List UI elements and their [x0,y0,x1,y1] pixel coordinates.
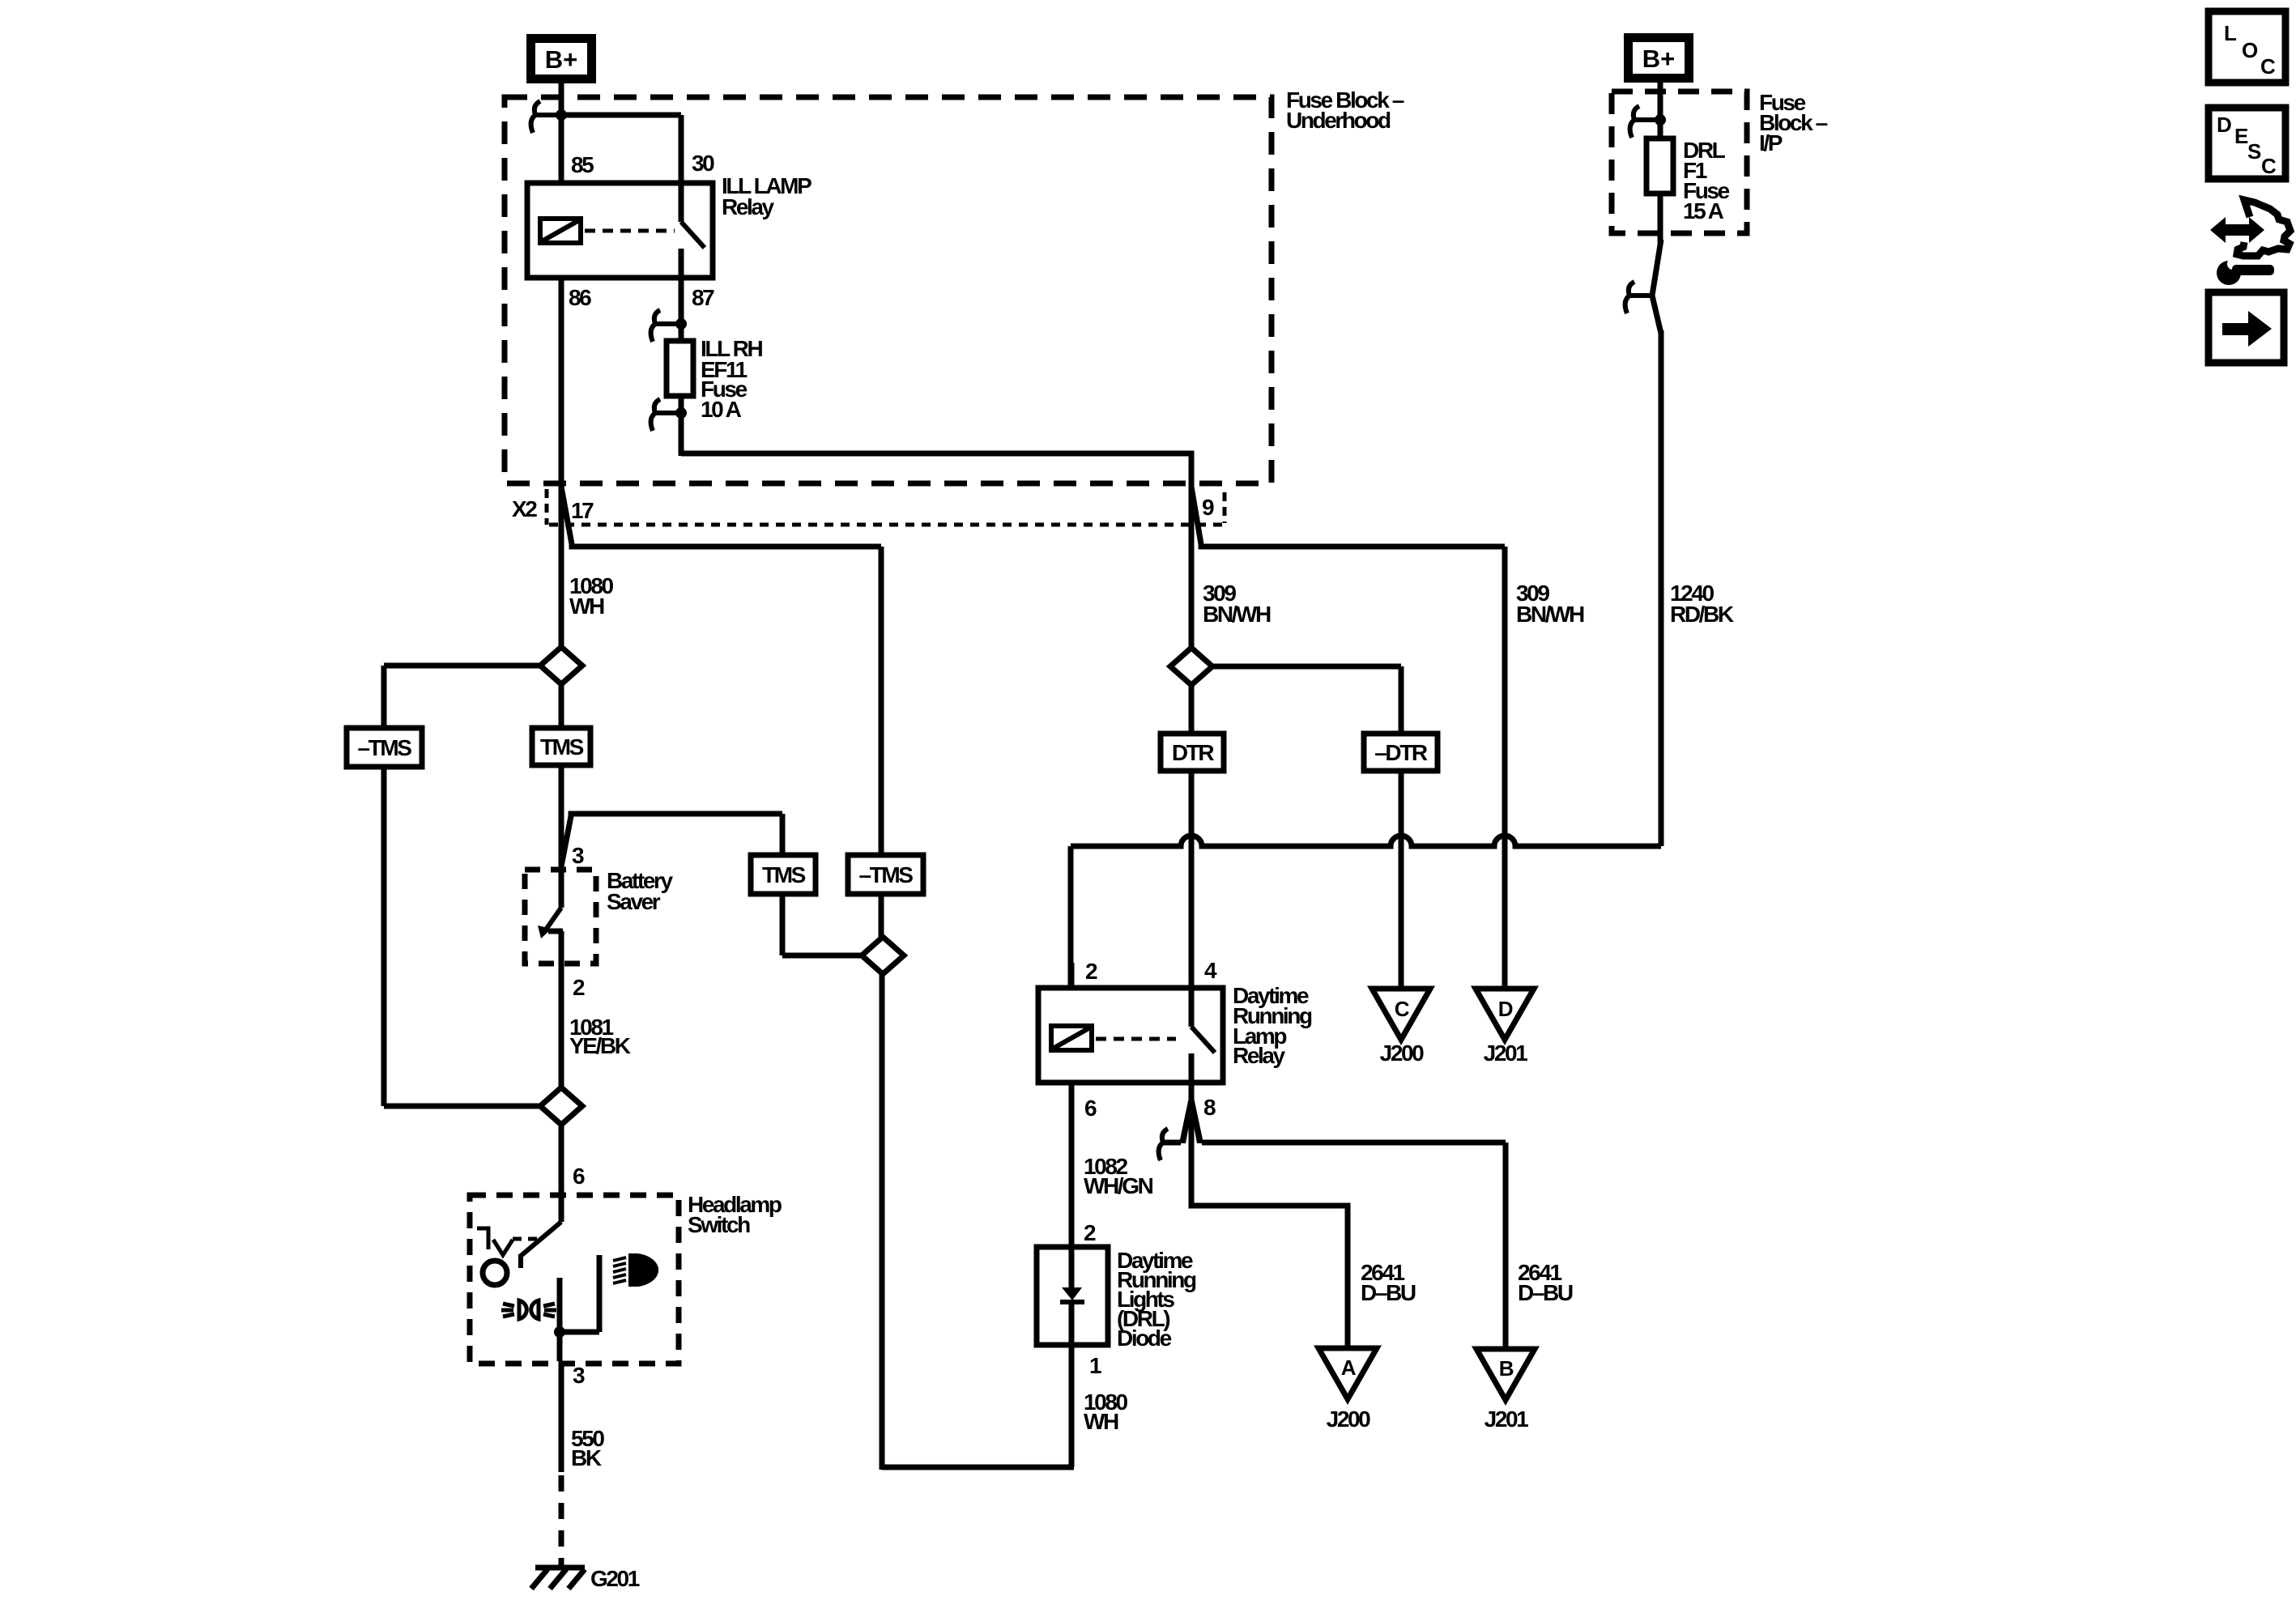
svg-text:J201: J201 [1484,1040,1528,1066]
svg-text:Relay: Relay [1233,1043,1286,1068]
svg-text:30: 30 [692,151,714,176]
svg-text:–TMS: –TMS [858,862,913,887]
svg-text:BN/WH: BN/WH [1516,602,1584,627]
svg-text:D: D [1498,997,1513,1021]
svg-text:WH/GN: WH/GN [1084,1173,1153,1198]
svg-text:DTR: DTR [1172,740,1215,765]
svg-text:BK: BK [571,1445,602,1470]
svg-text:E: E [2234,124,2248,148]
svg-text:2: 2 [1084,1220,1096,1245]
svg-text:6: 6 [573,1164,585,1189]
svg-text:9: 9 [1202,495,1214,520]
svg-text:WH: WH [569,594,604,619]
svg-text:–DTR: –DTR [1374,740,1428,765]
svg-text:B: B [1499,1356,1514,1381]
svg-text:BN/WH: BN/WH [1203,602,1271,627]
svg-text:C: C [2260,54,2276,79]
svg-text:C: C [2261,154,2277,178]
svg-text:S: S [2247,139,2261,164]
svg-text:D: D [2217,113,2231,137]
svg-text:8: 8 [1203,1095,1216,1120]
svg-text:C: C [1395,997,1410,1021]
svg-text:B+: B+ [1642,45,1676,73]
svg-text:Diode: Diode [1117,1326,1172,1351]
svg-text:–TMS: –TMS [357,735,411,760]
svg-text:87: 87 [692,285,714,310]
svg-text:O: O [2242,38,2258,62]
svg-text:Saver: Saver [607,889,661,914]
svg-text:X2: X2 [512,496,537,521]
svg-text:I/P: I/P [1759,130,1783,155]
svg-text:6: 6 [1084,1096,1097,1121]
svg-text:J200: J200 [1380,1040,1425,1066]
svg-text:J200: J200 [1327,1406,1371,1432]
svg-text:J201: J201 [1485,1406,1529,1432]
svg-text:3: 3 [572,843,584,868]
svg-text:TMS: TMS [762,862,806,887]
svg-text:L: L [2224,21,2237,45]
svg-text:10 A: 10 A [701,397,742,422]
svg-text:2: 2 [1085,959,1097,984]
svg-text:85: 85 [571,152,594,177]
svg-text:D–BU: D–BU [1518,1280,1573,1305]
svg-text:G201: G201 [590,1566,640,1591]
svg-text:Underhood: Underhood [1286,108,1391,133]
svg-text:Switch: Switch [688,1212,750,1237]
svg-text:1: 1 [1089,1353,1101,1378]
svg-text:RD/BK: RD/BK [1670,602,1734,627]
svg-text:B+: B+ [545,45,578,74]
svg-text:D–BU: D–BU [1361,1280,1416,1305]
svg-text:17: 17 [571,498,594,523]
svg-text:15 A: 15 A [1683,198,1724,223]
svg-text:86: 86 [569,285,591,310]
svg-text:WH: WH [1084,1409,1118,1434]
svg-text:3: 3 [573,1363,585,1388]
svg-text:YE/BK: YE/BK [569,1033,631,1058]
svg-text:TMS: TMS [540,734,584,760]
svg-text:A: A [1341,1355,1357,1380]
svg-text:Relay: Relay [722,194,775,219]
svg-text:2: 2 [573,975,585,1000]
